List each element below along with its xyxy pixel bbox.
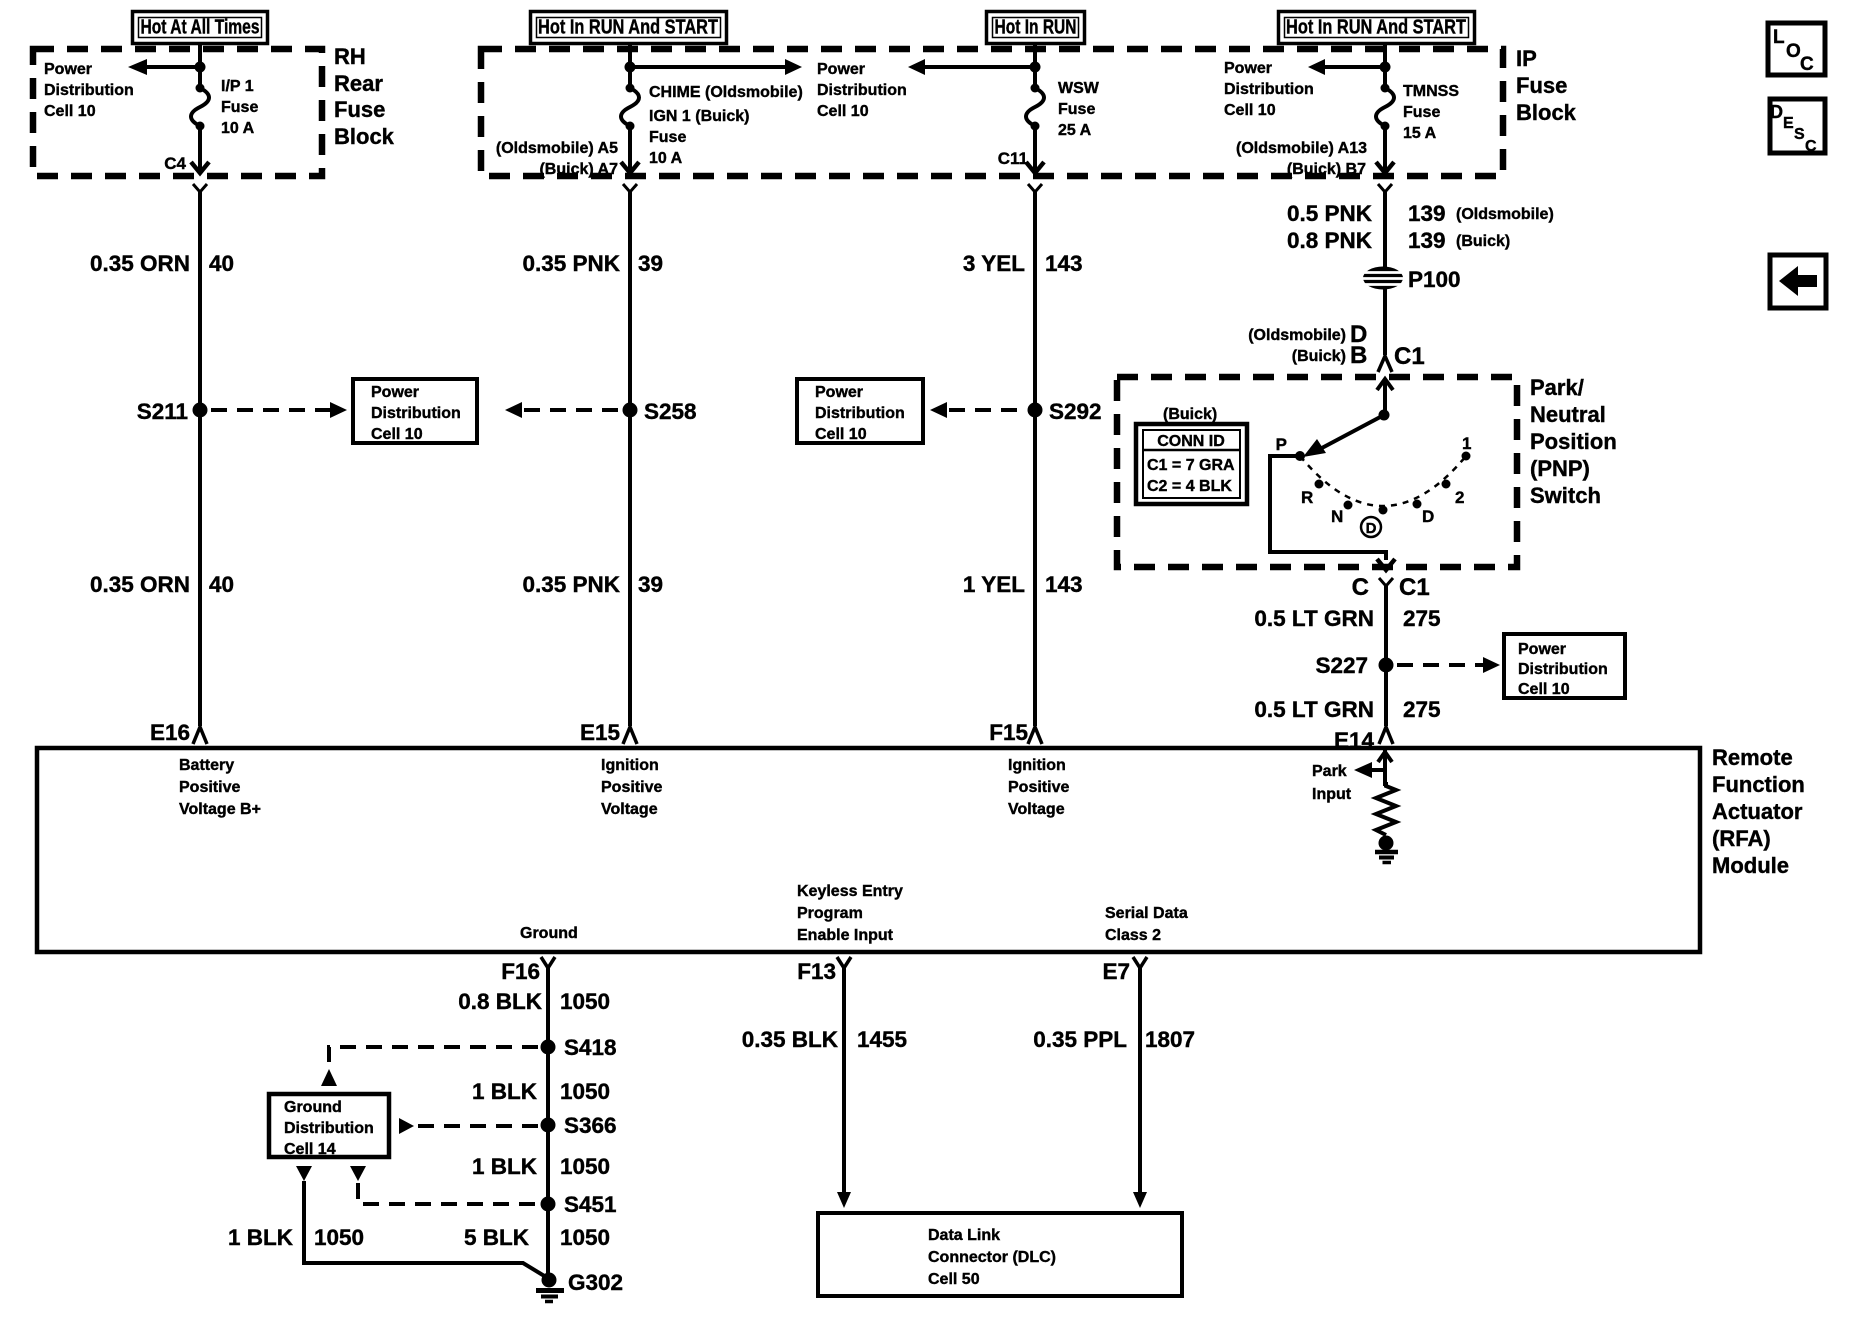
CONN ID table box (1136, 424, 1247, 504)
connector C/C1 labels (1352, 574, 1430, 601)
switch contact D-overdrive (circled D) (1361, 506, 1388, 538)
svg-text:Distribution: Distribution (817, 82, 907, 99)
switch contact D (1413, 500, 1435, 527)
svg-text:S292: S292 (1049, 399, 1102, 424)
wire arrow to Power Distribution Cell 10 (pointing right) (630, 59, 802, 75)
svg-text:Power: Power (44, 61, 92, 78)
pin E16 connector (193, 727, 207, 744)
svg-text:10 A: 10 A (649, 150, 683, 167)
wire W1 circuit 40 upper (198, 192, 202, 726)
svg-text:C1: C1 (1394, 343, 1425, 370)
svg-text:Enable Input: Enable Input (797, 927, 894, 944)
dashed reference arrow S292 to Power Distribution box (930, 402, 1025, 418)
wire arrow to Power Distribution Cell 10 (left) (128, 59, 200, 75)
pin E15 connector (623, 727, 637, 744)
svg-text:139: 139 (1408, 228, 1446, 253)
svg-text:Serial Data: Serial Data (1105, 905, 1188, 922)
svg-text:275: 275 (1403, 606, 1441, 631)
pin F16 label and connector (501, 957, 555, 984)
wire W4 circuit 139 (1383, 192, 1387, 355)
RH Rear Fuse Block dashed box (33, 49, 322, 176)
pin E16 label (150, 720, 190, 745)
switch arm to P contact (1303, 415, 1384, 457)
wire circuit 275 (1384, 586, 1388, 726)
svg-text:0.5 LT GRN: 0.5 LT GRN (1254, 697, 1374, 722)
module output label Ground (520, 925, 578, 942)
connector C1 labels (Oldsmobile D / Buick B) (1248, 321, 1424, 370)
pin E7 label and connector (1102, 957, 1147, 984)
module output label Serial Data Class 2 (1105, 905, 1188, 944)
header box Hot In RUN (987, 12, 1085, 44)
svg-text:Positive: Positive (1008, 779, 1069, 796)
svg-text:WSW: WSW (1058, 80, 1100, 97)
svg-text:Switch: Switch (1530, 483, 1601, 508)
svg-text:1807: 1807 (1145, 1027, 1195, 1052)
svg-text:Data Link: Data Link (928, 1227, 1000, 1244)
svg-text:Fuse: Fuse (221, 99, 258, 116)
svg-text:1050: 1050 (560, 1225, 610, 1250)
dashed reference arrow S258 to Power Distribution box (505, 402, 620, 418)
svg-text:Hot In RUN: Hot In RUN (995, 17, 1077, 39)
svg-text:Rear: Rear (334, 71, 383, 96)
svg-text:40: 40 (209, 251, 234, 276)
ground G302 (536, 1270, 623, 1302)
svg-text:Neutral: Neutral (1530, 402, 1606, 427)
pin E14 label (1334, 728, 1375, 753)
wire F16 ground circuit 1050 (546, 968, 550, 1276)
wire W1 to C4 with arrow (191, 126, 209, 173)
splice S451 (541, 1192, 617, 1217)
svg-text:C1: C1 (1399, 574, 1430, 601)
svg-text:2: 2 (1455, 488, 1464, 507)
svg-text:Function: Function (1712, 772, 1805, 797)
pin F13 label and connector (797, 957, 851, 984)
dashed reference arrow S211 to Power Distribution (211, 402, 347, 418)
Power Distribution Cell 10 text (RH block) (44, 61, 134, 120)
pass-through grommet P100 (1362, 267, 1461, 293)
svg-text:IP: IP (1516, 46, 1537, 71)
pin E14 connector (1379, 727, 1393, 744)
svg-text:F13: F13 (797, 959, 836, 984)
wire W4 to A13 with arrow (1376, 126, 1394, 173)
svg-text:Cell 10: Cell 10 (1224, 102, 1276, 119)
Power Distribution Cell 10 text (IP block right) (1224, 60, 1314, 119)
ground distribution left drop arrow (296, 1166, 312, 1181)
svg-text:0.35 PNK: 0.35 PNK (522, 251, 620, 276)
switch contact 1 (1462, 434, 1472, 461)
svg-text:Cell 10: Cell 10 (1518, 681, 1570, 698)
svg-text:0.8 PNK: 0.8 PNK (1287, 228, 1373, 253)
svg-text:D: D (1366, 520, 1377, 537)
switch contact arc (dashed) (1300, 456, 1466, 506)
wire label 1 YEL 143 (lower) (963, 572, 1083, 597)
wire W2 to A5 with arrow (621, 126, 639, 173)
svg-text:Hot In RUN And START: Hot In RUN And START (1286, 17, 1466, 39)
pin C4 label (164, 154, 186, 173)
svg-text:Cell 10: Cell 10 (817, 103, 869, 120)
svg-text:E16: E16 (150, 720, 190, 745)
switch contact 2 (1442, 480, 1465, 508)
node junction on W3 (1030, 62, 1041, 73)
resistor (park input pull-up) (1376, 782, 1396, 835)
svg-text:C1 = 7 GRA: C1 = 7 GRA (1147, 457, 1235, 474)
svg-text:1050: 1050 (560, 1154, 610, 1179)
switch arm pivot node (1379, 410, 1390, 421)
svg-text:143: 143 (1045, 572, 1083, 597)
svg-text:25 A: 25 A (1058, 122, 1092, 139)
wire label 1 BLK 1050 (S366-S451) (472, 1154, 610, 1179)
svg-text:Power: Power (1224, 60, 1272, 77)
wire label 3 YEL 143 (upper) (963, 251, 1083, 276)
svg-text:(Buick): (Buick) (1163, 406, 1217, 423)
svg-text:O: O (1786, 41, 1801, 62)
wire W2 circuit 39 (628, 192, 632, 726)
svg-text:(Buick): (Buick) (1456, 233, 1510, 250)
wire W3 upper segment (WSW feed) (1033, 45, 1037, 87)
node junction on W2 (625, 62, 636, 73)
pin F15 connector (1028, 727, 1042, 744)
module input label Battery Positive Voltage B+ (179, 757, 261, 818)
svg-text:0.35 PPL: 0.35 PPL (1033, 1027, 1127, 1052)
svg-text:(Buick): (Buick) (1292, 348, 1346, 365)
wire arrow to Power Distribution Cell 10 (pointing left) (1308, 59, 1385, 75)
svg-text:(PNP): (PNP) (1530, 456, 1590, 481)
svg-text:(Oldsmobile) A5: (Oldsmobile) A5 (496, 140, 618, 157)
connector C female half (1379, 578, 1393, 586)
node junction on W4 (1380, 62, 1391, 73)
RFA module box (37, 748, 1700, 952)
svg-text:Power: Power (1518, 641, 1566, 658)
wire from P contact to pin C (1270, 456, 1395, 570)
fuse CHIME/IGN1 10A (621, 84, 639, 131)
wire label 0.35 ORN 40 (upper) (90, 251, 234, 276)
pin F15 label (989, 720, 1028, 745)
svg-text:Distribution: Distribution (284, 1120, 374, 1137)
dashed reference S418 to Ground Distribution (321, 1047, 538, 1086)
svg-text:Park: Park (1312, 763, 1347, 780)
svg-text:F15: F15 (989, 720, 1028, 745)
svg-text:1 BLK: 1 BLK (472, 1079, 538, 1104)
svg-text:L: L (1773, 27, 1785, 48)
svg-text:Block: Block (1516, 100, 1577, 125)
IP Fuse Block label (1516, 46, 1577, 125)
svg-text:C2 = 4 BLK: C2 = 4 BLK (1147, 478, 1232, 495)
dashed reference Ground Distribution to S451 (358, 1183, 538, 1204)
connector C4 female half (193, 184, 207, 192)
wire label 1 BLK 1050 (S418-S366) (472, 1079, 610, 1104)
LOC corner box (1768, 23, 1825, 75)
svg-text:Fuse: Fuse (1403, 104, 1440, 121)
svg-text:Distribution: Distribution (371, 405, 461, 422)
svg-text:40: 40 (209, 572, 234, 597)
svg-text:Hot At All Times: Hot At All Times (141, 17, 260, 39)
module input label Ignition Positive Voltage (E15) (601, 757, 662, 818)
dashed reference arrow S227 to Power Distribution box (1397, 657, 1500, 673)
splice S211 (137, 399, 208, 424)
svg-text:(RFA): (RFA) (1712, 826, 1771, 851)
svg-text:39: 39 (638, 572, 663, 597)
svg-text:1: 1 (1462, 434, 1471, 453)
svg-text:G302: G302 (568, 1270, 623, 1295)
svg-text:(Buick) B7: (Buick) B7 (1287, 161, 1366, 178)
wire label 5 BLK 1050 (464, 1225, 610, 1250)
splice S227 (1315, 653, 1393, 678)
RFA module label (1712, 745, 1805, 878)
svg-text:Power: Power (815, 384, 863, 401)
Data Link Connector DLC box (818, 1213, 1182, 1296)
svg-text:S211: S211 (137, 399, 188, 424)
pin A5/A7 labels (496, 140, 618, 178)
svg-text:C: C (1805, 138, 1817, 155)
module output label Keyless Entry Program Enable Input (797, 883, 903, 944)
connector A13 female half (1378, 184, 1392, 192)
Power Distribution Cell 10 reference box (center-left) (353, 379, 477, 443)
svg-text:IGN 1 (Buick): IGN 1 (Buick) (649, 108, 749, 125)
svg-text:1455: 1455 (857, 1027, 907, 1052)
wire W3 to C11 with arrow (1026, 126, 1044, 173)
wire label 0.35 BLK 1455 (742, 1027, 907, 1052)
svg-text:1 BLK: 1 BLK (472, 1154, 538, 1179)
wire W3 circuit 143 (1033, 192, 1037, 726)
svg-text:R: R (1301, 488, 1313, 507)
PNP switch dashed box (1117, 377, 1517, 567)
svg-text:Fuse: Fuse (1516, 73, 1567, 98)
svg-text:C4: C4 (164, 154, 186, 173)
PNP switch label (1530, 375, 1617, 508)
svg-text:Distribution: Distribution (1518, 661, 1608, 678)
ground distribution right drop arrow (350, 1166, 366, 1181)
wire W4 upper segment (TMNSS feed) (1383, 45, 1387, 87)
svg-text:Ignition: Ignition (1008, 757, 1066, 774)
connector A5 female half (623, 184, 637, 192)
svg-text:0.5 LT GRN: 0.5 LT GRN (1254, 606, 1374, 631)
IP Fuse Block dashed box (481, 49, 1503, 176)
wire label 0.35 PNK 39 (lower) (522, 572, 663, 597)
svg-text:0.8 BLK: 0.8 BLK (458, 989, 543, 1014)
node junction on W1 (195, 62, 206, 73)
svg-text:S227: S227 (1315, 653, 1368, 678)
svg-text:CHIME (Oldsmobile): CHIME (Oldsmobile) (649, 84, 803, 101)
svg-text:F16: F16 (501, 959, 540, 984)
internal ground (1375, 836, 1398, 863)
DESC corner box (1770, 99, 1825, 155)
fuse WSW label (1058, 80, 1100, 139)
svg-text:0.35 BLK: 0.35 BLK (742, 1027, 839, 1052)
wire arrow to Power Distribution Cell 10 (pointing left) (908, 59, 1035, 75)
wire label 1 BLK 1050 (left branch) (228, 1225, 364, 1250)
module input label Ignition Positive Voltage (F15) (1008, 757, 1069, 818)
svg-text:Cell 50: Cell 50 (928, 1271, 980, 1288)
svg-text:1050: 1050 (560, 989, 610, 1014)
svg-text:(Oldsmobile) A13: (Oldsmobile) A13 (1236, 140, 1367, 157)
svg-text:TMNSS: TMNSS (1403, 83, 1459, 100)
dashed reference Ground Distribution to S366 (399, 1118, 538, 1134)
svg-text:1 BLK: 1 BLK (228, 1225, 294, 1250)
Ground Distribution Cell 14 reference box (269, 1094, 389, 1158)
svg-text:B: B (1350, 342, 1367, 369)
splice S366 (541, 1113, 617, 1138)
svg-text:15 A: 15 A (1403, 125, 1437, 142)
svg-text:(Oldsmobile): (Oldsmobile) (1456, 206, 1554, 223)
wire W1 upper segment (Hot At All Times feed) (198, 45, 202, 87)
svg-text:Ground: Ground (520, 925, 578, 942)
svg-text:E15: E15 (580, 720, 620, 745)
svg-text:3 YEL: 3 YEL (963, 251, 1025, 276)
svg-text:0.35 PNK: 0.35 PNK (522, 572, 620, 597)
svg-text:C: C (1352, 574, 1369, 601)
switch contact P (1276, 435, 1305, 461)
svg-text:0.35 ORN: 0.35 ORN (90, 251, 190, 276)
svg-text:Distribution: Distribution (815, 405, 905, 422)
svg-text:Cell 10: Cell 10 (44, 103, 96, 120)
Power Distribution Cell 10 reference box (right) (1504, 634, 1625, 698)
svg-text:C11: C11 (998, 149, 1028, 168)
svg-text:S258: S258 (644, 399, 697, 424)
Power Distribution Cell 10 reference box (center-right) (797, 379, 923, 443)
svg-text:1050: 1050 (560, 1079, 610, 1104)
svg-text:Keyless Entry: Keyless Entry (797, 883, 903, 900)
svg-text:Fuse: Fuse (1058, 101, 1095, 118)
connector C1 male half (1378, 356, 1392, 372)
svg-text:S418: S418 (564, 1035, 617, 1060)
svg-text:S366: S366 (564, 1113, 617, 1138)
svg-text:1050: 1050 (314, 1225, 364, 1250)
svg-text:Positive: Positive (601, 779, 662, 796)
svg-text:(Oldsmobile): (Oldsmobile) (1248, 327, 1346, 344)
back arrow corner box (1770, 255, 1826, 308)
svg-text:Block: Block (334, 124, 395, 149)
fuse I/P 1 label (221, 78, 258, 137)
wire W2 upper segment (CHIME/IGN1 feed) (628, 45, 632, 87)
svg-text:Connector (DLC): Connector (DLC) (928, 1249, 1056, 1266)
svg-text:Remote: Remote (1712, 745, 1793, 770)
svg-text:0.35 ORN: 0.35 ORN (90, 572, 190, 597)
Park Input label with arrow (1312, 762, 1386, 803)
svg-text:Cell 10: Cell 10 (815, 426, 867, 443)
splice S292 (1028, 399, 1102, 424)
wire 1 BLK 1050 to G302 (left branch) (304, 1181, 546, 1277)
fuse TMNSS label (1403, 83, 1459, 142)
svg-text:Module: Module (1712, 853, 1789, 878)
pin A13/B7 labels (1236, 140, 1367, 178)
svg-text:Battery: Battery (179, 757, 234, 774)
svg-text:1 YEL: 1 YEL (963, 572, 1025, 597)
svg-text:Input: Input (1312, 786, 1352, 803)
wire label 0.5 LT GRN 275 (lower) (1254, 697, 1440, 722)
svg-text:275: 275 (1403, 697, 1441, 722)
wire label 0.35 ORN 40 (lower) (90, 572, 234, 597)
pin C11 label (998, 149, 1028, 168)
fuse I/P 1 10A (191, 84, 209, 131)
svg-text:Distribution: Distribution (44, 82, 134, 99)
svg-text:Voltage: Voltage (601, 801, 658, 818)
svg-text:S: S (1794, 126, 1805, 143)
svg-text:Power: Power (371, 384, 419, 401)
svg-text:Positive: Positive (179, 779, 240, 796)
wire label 0.5 PNK 139 (Oldsmobile) (1287, 201, 1554, 226)
svg-text:RH: RH (334, 44, 366, 69)
fuse TMNSS 15A (1376, 84, 1394, 131)
connector C11 female half (1028, 184, 1042, 192)
svg-text:143: 143 (1045, 251, 1083, 276)
pin E15 label (580, 720, 620, 745)
wire E7 circuit 1807 (1133, 968, 1147, 1208)
svg-text:P100: P100 (1408, 267, 1461, 292)
RH Rear Fuse Block label (334, 44, 395, 149)
switch contact R (1301, 480, 1324, 508)
svg-text:Hot In RUN And START: Hot In RUN And START (538, 17, 718, 39)
wire label 0.8 BLK 1050 (458, 989, 610, 1014)
svg-text:Voltage: Voltage (1008, 801, 1065, 818)
svg-text:N: N (1331, 507, 1343, 526)
svg-text:Ground: Ground (284, 1099, 342, 1116)
svg-text:Voltage B+: Voltage B+ (179, 801, 261, 818)
Power Distribution Cell 10 text (IP block left) (817, 61, 907, 120)
wire label 0.35 PNK 39 (upper) (522, 251, 663, 276)
wire label 0.8 PNK 139 (Buick) (1287, 228, 1510, 253)
svg-text:10 A: 10 A (221, 120, 255, 137)
wire entering PNP switch with up arrow (1377, 379, 1393, 415)
svg-text:5 BLK: 5 BLK (464, 1225, 530, 1250)
svg-text:Position: Position (1530, 429, 1617, 454)
svg-text:E7: E7 (1102, 959, 1130, 984)
svg-text:Power: Power (817, 61, 865, 78)
svg-text:Ignition: Ignition (601, 757, 659, 774)
svg-text:Actuator: Actuator (1712, 799, 1803, 824)
header box Hot In RUN And START (right) (1279, 12, 1475, 44)
svg-text:S451: S451 (564, 1192, 617, 1217)
header box Hot At All Times (133, 12, 268, 44)
splice S418 (541, 1035, 617, 1060)
wire label 0.35 PPL 1807 (1033, 1027, 1195, 1052)
fuse CHIME label (649, 84, 803, 167)
svg-text:D: D (1770, 102, 1783, 122)
svg-text:39: 39 (638, 251, 663, 276)
wire label 0.5 LT GRN 275 (upper) (1254, 606, 1440, 631)
svg-text:Cell 10: Cell 10 (371, 426, 423, 443)
wire F13 circuit 1455 (837, 968, 851, 1208)
svg-text:Cell 14: Cell 14 (284, 1141, 336, 1158)
switch contact N (1331, 501, 1353, 527)
svg-text:Program: Program (797, 905, 863, 922)
header box Hot In RUN And START (left) (531, 12, 727, 44)
fuse WSW 25A (1026, 84, 1044, 131)
svg-text:139: 139 (1408, 201, 1446, 226)
svg-text:Fuse: Fuse (334, 97, 385, 122)
svg-text:(Buick) A7: (Buick) A7 (539, 161, 618, 178)
svg-text:C: C (1800, 54, 1814, 75)
svg-text:D: D (1422, 507, 1434, 526)
svg-text:0.5 PNK: 0.5 PNK (1287, 201, 1373, 226)
splice S258 (623, 399, 697, 424)
svg-text:I/P 1: I/P 1 (221, 78, 254, 95)
svg-text:CONN ID: CONN ID (1157, 433, 1225, 450)
svg-text:E: E (1783, 115, 1794, 132)
svg-text:Fuse: Fuse (649, 129, 686, 146)
svg-text:Class 2: Class 2 (1105, 927, 1161, 944)
svg-text:P: P (1276, 435, 1287, 454)
svg-text:Distribution: Distribution (1224, 81, 1314, 98)
(Buick) label above CONN ID (1163, 406, 1217, 423)
park input wire with up arrow (1378, 748, 1392, 786)
svg-text:Park/: Park/ (1530, 375, 1584, 400)
